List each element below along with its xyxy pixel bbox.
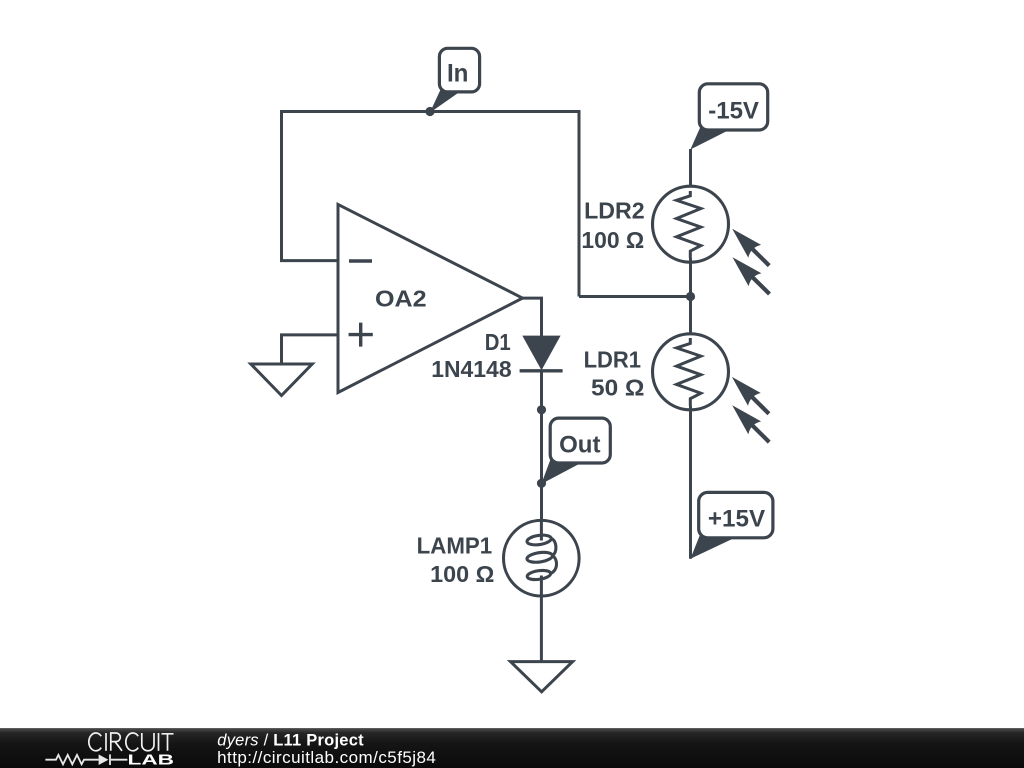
ground (lamp bottom) bbox=[511, 662, 573, 692]
wire to LDR junction bbox=[579, 295, 691, 298]
flag +15V supply callout bbox=[690, 492, 773, 558]
logo CIRCUIT wordmark bbox=[89, 733, 174, 751]
svg-text:-15V: -15V bbox=[708, 97, 759, 124]
op-amp non-inverting plus sign bbox=[349, 323, 373, 347]
photoresistor LDR2 zigzag bbox=[677, 191, 701, 258]
node In junction dot bbox=[425, 107, 434, 116]
svg-text:50 Ω: 50 Ω bbox=[591, 375, 645, 401]
wire -15V to LDR2 bbox=[689, 149, 692, 196]
svg-text:1N4148: 1N4148 bbox=[431, 356, 512, 382]
wire inverting input horizontal bbox=[280, 259, 338, 262]
lamp filament lead in bbox=[540, 520, 543, 541]
flag Out callout bbox=[541, 418, 610, 484]
wire non-inverting input bbox=[282, 335, 339, 364]
wire LDR2 to junction bbox=[689, 258, 692, 297]
svg-text:Out: Out bbox=[559, 431, 600, 458]
node junction dot between LDR2 and LDR1 bbox=[686, 292, 695, 301]
svg-text:D1: D1 bbox=[485, 329, 511, 355]
lamp LAMP1 envelope circle bbox=[504, 520, 580, 596]
svg-text:http://circuitlab.com/c5f5j84: http://circuitlab.com/c5f5j84 bbox=[217, 748, 436, 767]
svg-text:100 Ω: 100 Ω bbox=[430, 561, 494, 587]
op-amp OA2 triangle bbox=[338, 204, 523, 392]
light arrow LDR2 upper bbox=[732, 229, 769, 266]
node Out junction dot bbox=[537, 479, 546, 488]
svg-text:LAMP1: LAMP1 bbox=[417, 533, 493, 559]
logo mini schematic (resistor + diode) bbox=[45, 754, 127, 765]
svg-text:In: In bbox=[447, 59, 469, 87]
wire top horizontal (In net) bbox=[282, 110, 580, 113]
photoresistor LDR2 circle bbox=[653, 186, 729, 262]
flag -15V supply callout bbox=[690, 84, 767, 150]
flag In callout bbox=[430, 48, 480, 113]
footer bar bbox=[0, 728, 1024, 768]
svg-text:LDR1: LDR1 bbox=[584, 347, 642, 373]
logo diode triangle bbox=[99, 754, 109, 765]
light arrow LDR1 upper bbox=[732, 377, 769, 414]
light arrow LDR1 lower bbox=[732, 405, 769, 442]
wire left vertical (to inverting input) bbox=[280, 110, 283, 261]
lamp filament coil bbox=[526, 534, 556, 581]
photoresistor LDR1 zigzag bbox=[677, 338, 701, 406]
ground (op-amp + input) bbox=[251, 364, 312, 396]
wire diode to lamp bbox=[540, 371, 543, 521]
svg-text:OA2: OA2 bbox=[375, 286, 427, 312]
node dot below diode bbox=[537, 405, 546, 414]
svg-text:dyers / L11 Project: dyers / L11 Project bbox=[217, 731, 364, 749]
wire LDR1 to +15V bbox=[689, 406, 692, 559]
svg-text:+15V: +15V bbox=[708, 506, 765, 533]
diode D1 anode triangle bbox=[522, 336, 560, 371]
svg-text:100 Ω: 100 Ω bbox=[581, 227, 644, 253]
svg-text:LAB: LAB bbox=[128, 753, 175, 768]
wire op-amp output bbox=[523, 298, 542, 336]
diode D1 cathode bar bbox=[520, 369, 563, 372]
wire junction to LDR1 bbox=[689, 297, 692, 339]
svg-text:LDR2: LDR2 bbox=[584, 198, 645, 224]
op-amp inverting minus sign bbox=[349, 259, 372, 262]
photoresistor LDR1 circle bbox=[653, 334, 729, 410]
lamp filament lead out / wire to ground bbox=[540, 576, 543, 662]
light arrow LDR2 lower bbox=[733, 257, 770, 294]
wire right vertical (In net down) bbox=[578, 110, 581, 297]
